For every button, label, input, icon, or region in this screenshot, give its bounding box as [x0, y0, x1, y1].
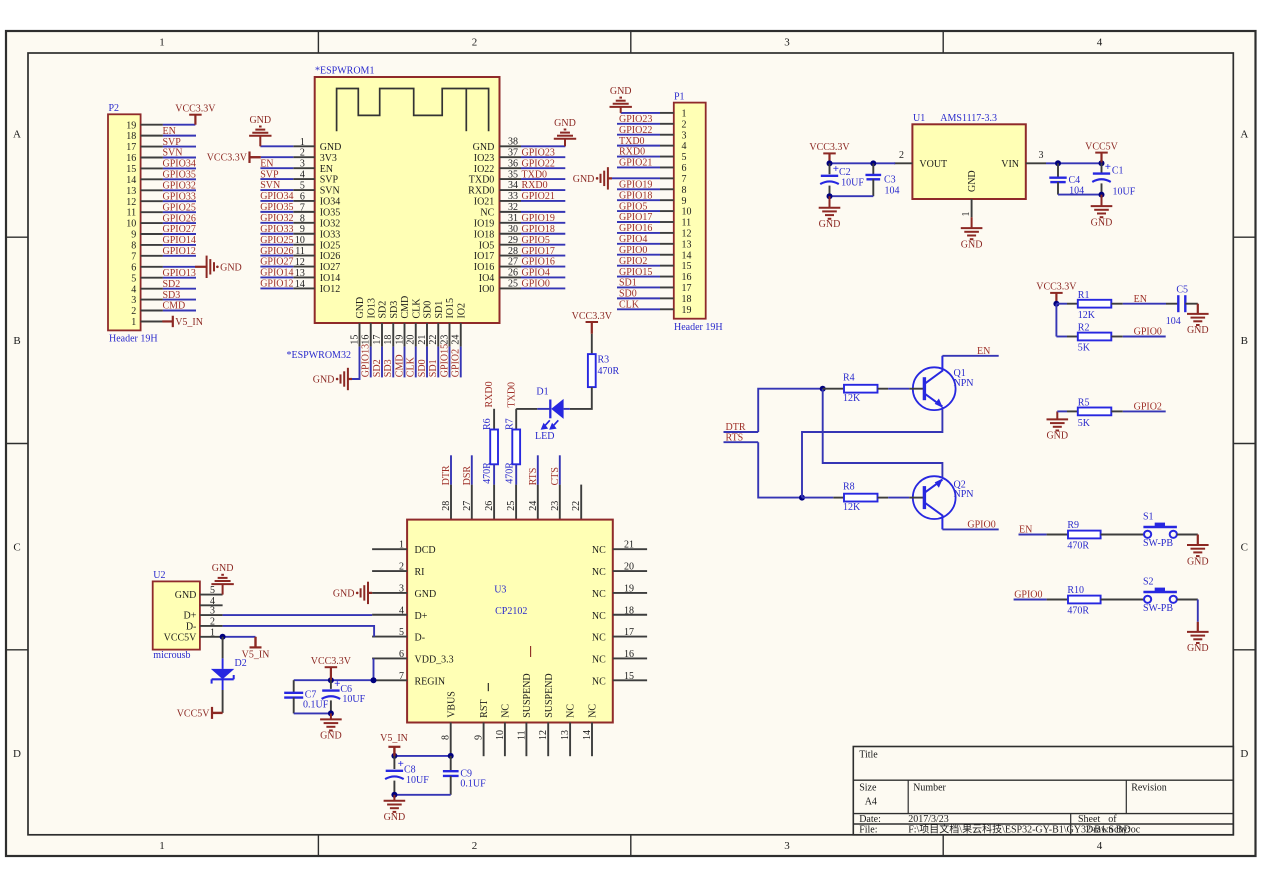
capacitor C7 0.1UF: [284, 680, 329, 713]
svg-text:GND: GND: [961, 239, 983, 250]
wire net CLK at P1 pin 19: [617, 308, 674, 310]
svg-text:GPIO5: GPIO5: [619, 201, 647, 212]
svg-text:15: 15: [126, 164, 136, 175]
module left pin stubs: [293, 146, 314, 288]
svg-text:GND: GND: [320, 142, 342, 153]
svg-text:GPIO35: GPIO35: [260, 202, 293, 213]
module U_ESPWROM1 (*ESPWROM1): [315, 66, 500, 324]
svg-text:GND: GND: [573, 174, 595, 185]
svg-text:C3: C3: [884, 174, 896, 185]
wire P1 pin 1 GND: [621, 112, 674, 114]
svg-text:C1: C1: [1112, 165, 1124, 176]
wire DTR to U3 pin 28: [450, 455, 452, 484]
net label GPIO21 (P1): [619, 158, 652, 169]
svg-text:GPIO13: GPIO13: [361, 344, 372, 377]
wire net GPIO13 at module pin 16: [370, 347, 372, 378]
svg-text:4: 4: [682, 141, 687, 152]
svg-text:GPIO18: GPIO18: [522, 224, 555, 235]
svg-text:1: 1: [159, 37, 165, 49]
wire DTR stub: [724, 431, 759, 433]
zone letters right: [1240, 129, 1248, 761]
wire RTS to Q1 emitter crossing: [802, 407, 942, 498]
wire net GPIO19 at P1 pin 8: [617, 188, 674, 190]
capacitor C4 104: [1049, 163, 1084, 196]
svg-text:TXD0: TXD0: [469, 175, 495, 186]
svg-text:GPIO22: GPIO22: [619, 125, 652, 136]
wire R10 to S2: [1101, 599, 1144, 601]
svg-text:R5: R5: [1078, 398, 1090, 409]
wire EN to R9: [1019, 534, 1069, 536]
svg-text:IO23: IO23: [474, 153, 495, 164]
net label CLK (P1): [619, 299, 640, 310]
net label GPIO4 (P1): [619, 234, 647, 245]
svg-text:14: 14: [126, 175, 136, 186]
net label TXD0 above R7: [506, 382, 517, 408]
svg-text:AMS1117-3.3: AMS1117-3.3: [940, 113, 997, 124]
connector U2 microusb: [153, 570, 200, 661]
U3 top pin names: [447, 522, 588, 543]
power port V5_IN at P2 pin 1: [162, 316, 203, 328]
junction at C2 bottom: [827, 193, 833, 199]
capacitor C2 10UF: [820, 163, 864, 196]
transistor Q2 NPN: [909, 476, 973, 529]
wire net GPIO21 at module pin 33: [521, 200, 565, 202]
svg-text:GPIO16: GPIO16: [619, 223, 652, 234]
svg-text:RI: RI: [415, 567, 425, 578]
svg-text:9: 9: [131, 230, 136, 241]
wire net SD3 at module pin 18: [392, 347, 394, 378]
svg-text:8: 8: [682, 185, 687, 196]
svg-text:GPIO5: GPIO5: [522, 235, 550, 246]
net label GPIO21 (module right): [522, 191, 555, 202]
svg-text:GPIO26: GPIO26: [260, 246, 293, 257]
svg-text:LED: LED: [535, 431, 554, 442]
wire net SD0 at P1 pin 18: [617, 297, 674, 299]
net label RXD0 (module right): [522, 180, 548, 191]
U3 bottom pin stubs: [451, 723, 592, 757]
svg-text:4: 4: [1097, 840, 1103, 852]
wire net GPIO15 at P1 pin 16: [617, 276, 674, 278]
U3 right pin numbers: [624, 540, 634, 682]
svg-text:19: 19: [682, 305, 692, 316]
wire D+ net U2 to U3: [223, 614, 373, 616]
svg-text:C2: C2: [839, 167, 851, 178]
svg-text:10UF: 10UF: [406, 775, 429, 786]
svg-text:GPIO12: GPIO12: [163, 246, 196, 257]
U3 right pin names NC: [592, 545, 606, 687]
svg-text:GPIO33: GPIO33: [260, 224, 293, 235]
power port V5_IN above C8: [380, 733, 408, 756]
svg-text:GPIO23: GPIO23: [522, 147, 555, 158]
svg-text:SD3: SD3: [163, 290, 181, 301]
power port VCC3.3V at C6: [311, 656, 352, 680]
net label CTS: [550, 467, 561, 485]
svg-text:SW-PB: SW-PB: [1143, 603, 1173, 614]
net label SD3 (module bottom): [383, 359, 394, 377]
wire net GPIO4 at module pin 26: [521, 276, 565, 278]
net label TXD0 (module right): [522, 169, 548, 180]
svg-text:SD2: SD2: [372, 359, 383, 377]
svg-text:IO14: IO14: [320, 273, 341, 284]
IC U3 CP2102: [407, 520, 613, 723]
svg-text:GPIO15: GPIO15: [439, 344, 450, 377]
net label GPIO14: [163, 235, 196, 246]
wire net TXD0 at P1 pin 4: [617, 145, 674, 147]
wire net GPIO0 at P1 pin 14: [617, 254, 674, 256]
svg-text:CMD: CMD: [400, 296, 411, 319]
svg-text:VOUT: VOUT: [919, 159, 947, 170]
power port VCC3.3V at R1: [1036, 282, 1077, 304]
svg-text:6: 6: [682, 163, 687, 174]
net label GPIO32: [163, 180, 196, 191]
wire Q1 collector to EN: [942, 355, 998, 357]
diode D2: [211, 637, 247, 713]
wire U3 VBUS to V5_IN rail: [394, 755, 450, 757]
svg-text:GND: GND: [1187, 643, 1209, 654]
net label GPIO17 (module right): [522, 246, 555, 257]
wire GND to R5: [1057, 410, 1078, 412]
svg-text:3: 3: [131, 295, 136, 306]
svg-text:GPIO0: GPIO0: [967, 520, 995, 531]
wire net GPIO26 to module pin 11: [260, 255, 293, 257]
ground below C8: [384, 795, 406, 823]
svg-text:S2: S2: [1143, 577, 1154, 588]
wire R1 R2 vertical: [1055, 304, 1057, 337]
junction at C3 top: [870, 160, 876, 166]
svg-text:5K: 5K: [1078, 343, 1091, 354]
wire net GPIO15 at module pin 23: [449, 347, 451, 378]
ground at U3 pin 3: [333, 582, 372, 604]
svg-text:A: A: [13, 129, 21, 141]
svg-text:TXD0: TXD0: [522, 169, 548, 180]
svg-text:IO22: IO22: [474, 164, 495, 175]
svg-text:NC: NC: [592, 654, 606, 665]
zone numbers bottom: [159, 840, 1103, 852]
U3 bottom pin numbers: [441, 730, 593, 740]
svg-text:DSR: DSR: [462, 466, 473, 486]
svg-text:GPIO15: GPIO15: [619, 267, 652, 278]
svg-text:GND: GND: [384, 812, 406, 823]
svg-text:470R: 470R: [1067, 541, 1089, 552]
wire net GPIO17 at P1 pin 11: [617, 221, 674, 223]
net label GPIO27: [163, 224, 196, 235]
svg-text:VCC3.3V: VCC3.3V: [809, 142, 850, 153]
ground at U1 pin 1: [961, 217, 983, 250]
wire net SVN to module pin 5: [260, 189, 293, 191]
junction at U2 pin 1: [220, 634, 226, 640]
net label GPIO19 (module right): [522, 213, 555, 224]
power port VCC3.3V above R3: [572, 311, 613, 334]
net label GPIO16 (module right): [522, 257, 555, 268]
svg-text:EN: EN: [977, 346, 990, 357]
capacitor C9 0.1UF: [443, 756, 486, 795]
svg-text:Number: Number: [913, 782, 946, 793]
wire net GPIO35 to module pin 7: [260, 211, 293, 213]
svg-text:SD1: SD1: [428, 359, 439, 377]
net label GPIO34: [163, 159, 196, 170]
net label GPIO26 (module): [260, 246, 293, 257]
svg-text:GND: GND: [819, 219, 841, 230]
wire net EN at P2 pin 18: [163, 135, 196, 137]
svg-text:File:: File:: [859, 824, 877, 835]
svg-text:U1: U1: [913, 113, 925, 124]
svg-text:GND: GND: [610, 86, 632, 97]
net label EN: [163, 126, 176, 137]
svg-text:470R: 470R: [598, 366, 620, 377]
svg-text:IO17: IO17: [474, 251, 495, 262]
net label SD1 (module bottom): [428, 359, 439, 377]
svg-text:EN: EN: [260, 158, 273, 169]
ground at U2 pin 5: [211, 563, 233, 595]
wire R1 to C5 net EN: [1111, 303, 1178, 305]
junction at C4 top: [1055, 160, 1061, 166]
wire net GPIO18 at module pin 30: [521, 233, 565, 235]
wire module pin 1 GND: [260, 145, 293, 147]
svg-text:12: 12: [682, 229, 692, 240]
power port V5_IN at U2: [242, 637, 270, 661]
svg-text:10UF: 10UF: [342, 694, 365, 705]
net label SVP (module): [260, 169, 279, 180]
svg-text:U3: U3: [494, 585, 506, 596]
svg-text:R1: R1: [1078, 290, 1090, 301]
wire net CMD at P2 pin 2: [163, 310, 196, 312]
net label EN at Q1: [977, 346, 990, 357]
wire net GPIO33 to module pin 9: [260, 233, 293, 235]
svg-text:D: D: [13, 748, 21, 760]
svg-text:CP2102: CP2102: [495, 606, 527, 617]
svg-text:RXD0: RXD0: [484, 381, 495, 407]
net label GPIO0 (P1): [619, 245, 647, 256]
net label EN at R1: [1134, 294, 1147, 305]
wire net GPIO12 to module pin 14: [260, 287, 293, 289]
wire module pin 38 GND: [521, 145, 565, 147]
svg-text:GPIO4: GPIO4: [619, 234, 647, 245]
antenna meander inside module: [337, 89, 489, 132]
wire net GPIO32 to module pin 8: [260, 222, 293, 224]
svg-text:GPIO27: GPIO27: [260, 257, 293, 268]
svg-text:8: 8: [131, 241, 136, 252]
svg-text:1: 1: [961, 212, 972, 217]
svg-text:SVP: SVP: [163, 137, 182, 148]
title block: [853, 747, 1233, 836]
svg-text:D-: D-: [186, 622, 197, 633]
svg-text:GPIO2: GPIO2: [619, 256, 647, 267]
svg-text:18: 18: [126, 131, 136, 142]
svg-text:Date:: Date:: [859, 814, 881, 825]
wire R5 to GPIO2: [1111, 410, 1165, 412]
junction at C8 bottom: [391, 792, 397, 798]
net label SD3: [163, 290, 181, 301]
svg-text:D: D: [1240, 748, 1248, 760]
net label SVP: [163, 137, 182, 148]
wire R9 to S1: [1101, 534, 1144, 536]
zone row dividers right: [1233, 237, 1255, 650]
net label SD0 (module bottom): [417, 359, 428, 377]
svg-text:IO13: IO13: [366, 298, 377, 319]
wire S2 to ground: [1177, 600, 1198, 622]
svg-text:1: 1: [159, 840, 165, 852]
svg-text:EN: EN: [1134, 294, 1147, 305]
svg-text:of: of: [1108, 814, 1117, 825]
svg-text:B: B: [1241, 335, 1248, 347]
net label TXD0 (P1): [619, 136, 645, 147]
svg-text:C5: C5: [1176, 284, 1188, 295]
wire net GPIO16 at module pin 27: [521, 266, 565, 268]
svg-text:NC: NC: [566, 704, 577, 718]
wire net GPIO17 at module pin 28: [521, 255, 565, 257]
svg-text:GPIO16: GPIO16: [522, 257, 555, 268]
svg-text:GND: GND: [1187, 325, 1209, 336]
svg-text:2: 2: [472, 840, 478, 852]
svg-text:VDD_3.3: VDD_3.3: [415, 654, 454, 665]
wire net GPIO25 at P2 pin 11: [163, 211, 196, 213]
svg-text:16: 16: [682, 272, 692, 283]
wire net GPIO25 to module pin 10: [260, 244, 293, 246]
svg-text:DTR: DTR: [441, 465, 452, 485]
net label GPIO18 (P1): [619, 190, 652, 201]
svg-text:R10: R10: [1067, 585, 1084, 596]
svg-text:GND: GND: [313, 375, 335, 386]
svg-text:13: 13: [682, 239, 692, 250]
svg-text:Header 19H: Header 19H: [109, 333, 158, 344]
wire net EN to module pin 3: [260, 167, 293, 169]
U3 RST overbar: [487, 683, 489, 691]
wire net GPIO4 at P1 pin 13: [617, 243, 674, 245]
net label GPIO12: [163, 246, 196, 257]
wire net GPIO34 to module pin 6: [260, 200, 293, 202]
wire net GPIO14 to module pin 13: [260, 276, 293, 278]
wire net SVN at P2 pin 16: [163, 156, 196, 158]
svg-text:IO25: IO25: [320, 240, 341, 251]
net label DTR: [441, 465, 452, 485]
svg-text:GPIO19: GPIO19: [522, 213, 555, 224]
svg-text:RXD0: RXD0: [522, 180, 548, 191]
svg-text:GPIO34: GPIO34: [260, 191, 293, 202]
svg-text:GND: GND: [320, 731, 342, 742]
wire DTR up to R4 row: [758, 389, 823, 432]
wire net CMD at module pin 19: [404, 347, 406, 378]
wire net RXD0 at P1 pin 5: [617, 156, 674, 158]
svg-text:SUSPEND: SUSPEND: [522, 673, 533, 717]
wire net GPIO0 at module pin 25: [521, 287, 565, 289]
wire DSR to U3 pin 27: [471, 455, 473, 484]
wire REGIN rail: [294, 679, 372, 681]
power port VCC5V: [1085, 141, 1119, 162]
svg-text:GPIO0: GPIO0: [522, 279, 550, 290]
zone row dividers left: [6, 237, 28, 650]
svg-text:C: C: [1241, 542, 1248, 554]
svg-text:IO5: IO5: [479, 240, 495, 251]
wire net SD2 at P2 pin 4: [163, 288, 196, 290]
svg-text:NC: NC: [592, 676, 606, 687]
svg-text:V5_IN: V5_IN: [380, 733, 408, 744]
svg-text:GND: GND: [1046, 431, 1068, 442]
svg-text:SUSPEND: SUSPEND: [544, 673, 555, 717]
net label DTR: [726, 422, 746, 433]
svg-text:SVN: SVN: [163, 148, 183, 159]
net label GPIO35 (module): [260, 202, 293, 213]
net label EN at R9: [1019, 525, 1032, 536]
svg-text:VCC3.3V: VCC3.3V: [572, 311, 613, 322]
U3 top pin numbers: [441, 501, 582, 511]
U3 left pin names: [415, 545, 454, 687]
svg-text:GND: GND: [355, 297, 366, 319]
switch S2 SW-PB: [1143, 577, 1177, 615]
wire DTR to Q2 emitter crossing: [823, 389, 943, 477]
svg-text:D1: D1: [536, 387, 548, 398]
svg-text:GPIO18: GPIO18: [619, 190, 652, 201]
svg-text:SD1: SD1: [434, 301, 445, 319]
net label GPIO23 (P1): [619, 114, 652, 125]
net label GPIO2 at R5: [1134, 402, 1162, 413]
svg-text:GPIO14: GPIO14: [260, 268, 293, 279]
svg-text:5K: 5K: [1078, 418, 1091, 429]
svg-text:104: 104: [1166, 316, 1181, 327]
P2 pin stubs: [141, 125, 163, 322]
wire P2 pin 19 to VCC3.3V: [163, 124, 196, 126]
U3 left pin numbers: [399, 540, 404, 682]
svg-text:SD1: SD1: [619, 278, 637, 289]
svg-text:C: C: [13, 542, 20, 554]
module bottom pin numbers: [350, 335, 462, 345]
svg-text:GPIO25: GPIO25: [260, 235, 293, 246]
svg-text:25: 25: [506, 501, 517, 511]
label *ESPWROM32: [287, 350, 351, 361]
wire D- net U2 to U3: [223, 626, 375, 637]
wire module pin 2 3V3: [261, 156, 294, 158]
svg-text:470R: 470R: [1067, 606, 1089, 617]
svg-text:5: 5: [682, 152, 687, 163]
svg-text:RTS: RTS: [528, 468, 539, 486]
svg-text:IO27: IO27: [320, 262, 341, 273]
net label GPIO2 (module bottom): [451, 349, 462, 377]
wire net GPIO19 at module pin 31: [521, 222, 565, 224]
svg-text:9: 9: [682, 196, 687, 207]
resistor R2 5K: [1078, 323, 1112, 354]
junction at R4 input: [820, 386, 826, 392]
svg-text:Revision: Revision: [1131, 782, 1167, 793]
net label GPIO4 (module right): [522, 268, 550, 279]
ground at P1 pin 7: [573, 167, 612, 189]
svg-text:0.1UF: 0.1UF: [460, 779, 486, 790]
module right pin stubs: [500, 146, 522, 288]
svg-text:A4: A4: [865, 796, 877, 807]
svg-text:IO35: IO35: [320, 207, 341, 218]
U3 left pin stubs: [372, 549, 407, 680]
svg-text:C8: C8: [404, 764, 416, 775]
svg-text:26: 26: [484, 501, 495, 511]
svg-text:GND: GND: [473, 142, 495, 153]
svg-text:R3: R3: [598, 355, 610, 366]
wire net CLK at module pin 20: [415, 347, 417, 378]
svg-text:3: 3: [1039, 150, 1044, 161]
svg-text:SD0: SD0: [423, 301, 434, 319]
svg-text:SVP: SVP: [320, 175, 339, 186]
capacitor C5 104: [1166, 284, 1198, 327]
svg-text:*ESPWROM32: *ESPWROM32: [287, 350, 351, 361]
svg-text:GPIO26: GPIO26: [163, 213, 196, 224]
svg-text:CLK: CLK: [619, 299, 640, 310]
svg-text:15: 15: [682, 261, 692, 272]
module bottom pin names: [355, 296, 467, 319]
wire TXD0 to D1 anode: [516, 408, 550, 410]
power port VCC3.3V at P2 pin 19: [175, 104, 216, 125]
net label SD2: [163, 279, 181, 290]
svg-text:NPN: NPN: [954, 378, 974, 389]
svg-text:GND: GND: [333, 589, 355, 600]
svg-text:NC: NC: [592, 611, 606, 622]
svg-text:GPIO21: GPIO21: [522, 191, 555, 202]
